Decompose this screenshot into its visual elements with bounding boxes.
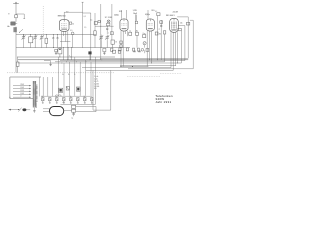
svg-text:0,9: 0,9 [66, 12, 68, 14]
svg-text:1,2W: 1,2W [133, 10, 137, 12]
svg-text:20308: 20308 [108, 17, 112, 19]
svg-text:0,5: 0,5 [70, 30, 72, 32]
svg-text:4 -160: 4 -160 [94, 83, 99, 85]
svg-text:1,5: 1,5 [84, 27, 86, 29]
svg-text:Ab: Ab [7, 25, 9, 28]
svg-text:+4V: +4V [62, 102, 65, 104]
svg-text:6 0: 6 0 [94, 88, 96, 90]
svg-text:50µF: 50µF [133, 13, 137, 15]
svg-text:0,1: 0,1 [155, 11, 157, 13]
svg-text:2 -4v: 2 -4v [94, 79, 98, 81]
svg-text:SP: SP [105, 17, 107, 19]
svg-text:RE1 604 V: RE1 604 V [166, 15, 175, 17]
svg-text:0: 0 [20, 96, 21, 98]
svg-text:20k: 20k [180, 22, 183, 24]
svg-text:2a: 2a [62, 74, 64, 76]
svg-text:0,1: 0,1 [84, 16, 86, 18]
svg-text:2x10W: 2x10W [173, 11, 179, 13]
svg-text:2(30)x: 2(30)x [114, 15, 119, 17]
svg-text:20%: 20% [119, 11, 123, 13]
svg-text:2µ: 2µ [84, 96, 86, 98]
svg-text:5 +160: 5 +160 [94, 86, 99, 88]
svg-text:2µ: 2µ [70, 96, 72, 98]
svg-text:Jahr 1931: Jahr 1931 [155, 100, 171, 104]
svg-text:2µ: 2µ [71, 117, 73, 119]
svg-text:2µ: 2µ [56, 96, 58, 98]
svg-text:4(30)x: 4(30)x [145, 14, 150, 16]
svg-text:1 +4v: 1 +4v [94, 76, 98, 78]
svg-text:0,1: 0,1 [90, 20, 92, 22]
svg-text:3 +75: 3 +75 [94, 81, 98, 83]
svg-text:2µ: 2µ [42, 96, 44, 98]
svg-text:50: 50 [72, 23, 74, 25]
